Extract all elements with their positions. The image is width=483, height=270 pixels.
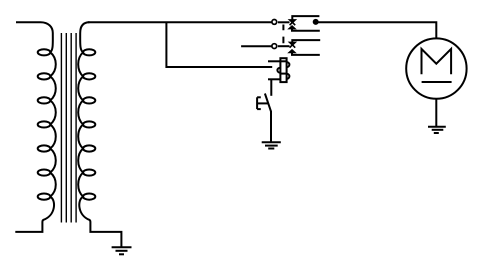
primary winding L1 loops — [38, 49, 51, 200]
switch S2 NO contact (bottom) — [289, 50, 320, 55]
wire secondary top lead — [80, 22, 89, 52]
wire primary top lead — [16, 22, 53, 52]
wire push button to ground — [270, 111, 272, 143]
primary winding L1 arcs and bottom lead — [15, 52, 55, 232]
ground G2 (push button) — [262, 142, 281, 148]
wire top bus to motor — [316, 22, 437, 38]
ground G1 (transformer secondary) — [112, 247, 132, 254]
switch S2 common circle — [272, 44, 277, 49]
wire coil to push button — [270, 79, 272, 96]
switch S2 common lead — [241, 45, 271, 47]
switch S2 NC contact (top) — [289, 40, 320, 48]
push button SB1 — [257, 94, 271, 112]
transformer T1 — [15, 22, 121, 247]
secondary winding L2 arcs and bottom lead — [78, 52, 121, 247]
junction dot — [313, 19, 319, 25]
switch S1 NC contact (top) — [289, 16, 320, 25]
ground G3 (motor) — [428, 127, 446, 133]
secondary winding L2 loops — [83, 49, 95, 200]
transformer core — [61, 33, 76, 223]
motor M1 — [406, 38, 466, 98]
wire motor to ground — [435, 99, 437, 127]
relay coil K1 — [268, 58, 289, 82]
wire main top bus — [88, 21, 272, 23]
wire branch from node A down and right to relay coil — [166, 22, 272, 67]
switch S1 common circle — [272, 20, 277, 25]
mechanical link (dashed) — [282, 25, 284, 44]
switch S1 lever — [278, 21, 290, 23]
switch S2 lever — [278, 45, 290, 47]
switch S1 NO contact (bottom) — [289, 26, 320, 31]
